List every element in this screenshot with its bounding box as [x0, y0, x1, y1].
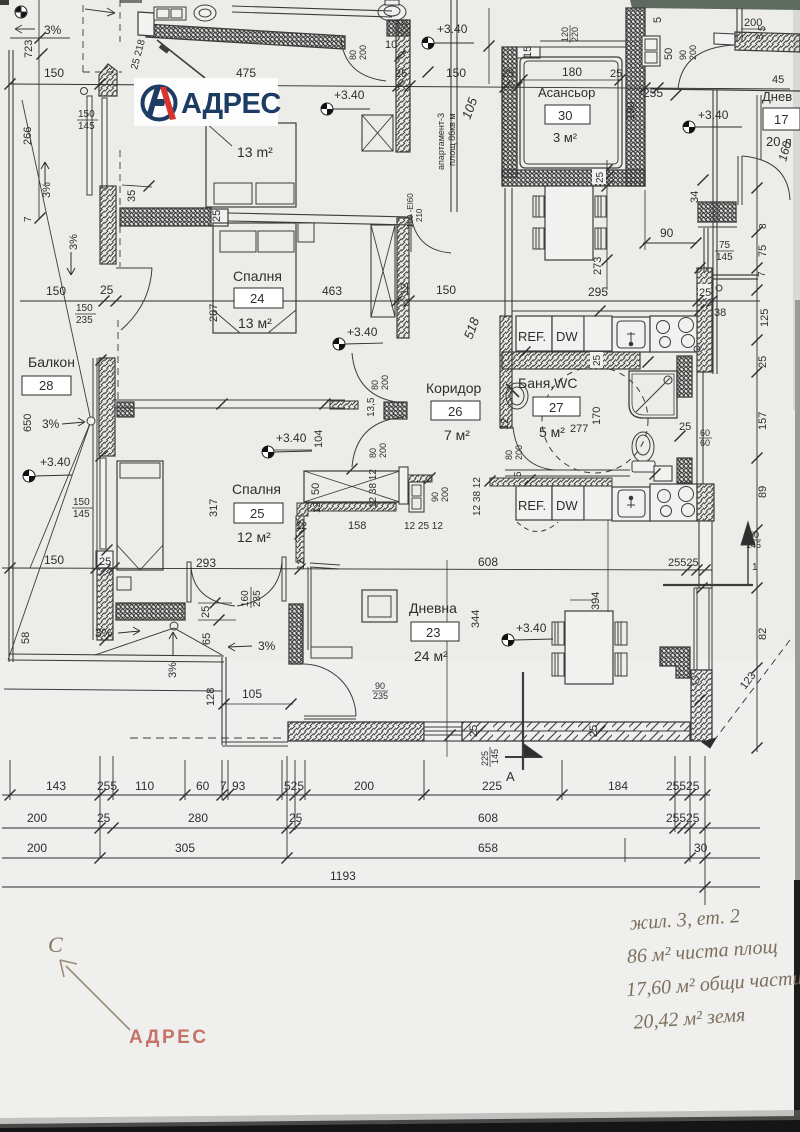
- svg-text:200: 200: [514, 445, 524, 460]
- label Дневна 23: [409, 600, 459, 664]
- wall left of kitchen/bath (hatch col): [500, 316, 512, 428]
- label Баня WC 27: [518, 375, 603, 440]
- balcony slope diagonals: [8, 100, 91, 660]
- svg-text:80: 80: [368, 448, 378, 458]
- dim elevator inner: [520, 79, 622, 81]
- svg-text:255: 255: [643, 86, 663, 100]
- svg-text:608: 608: [478, 811, 498, 825]
- svg-text:82: 82: [757, 628, 769, 640]
- handrail diagonal at top: [157, 40, 205, 78]
- svg-text:90: 90: [375, 681, 385, 691]
- wall dark bar bottom left: [116, 603, 185, 620]
- svg-text:145: 145: [716, 252, 733, 263]
- label 80/200 doorC: [368, 443, 388, 458]
- svg-text:+3.40: +3.40: [516, 621, 547, 635]
- svg-text:104: 104: [313, 430, 325, 448]
- label +3.40 right: [683, 108, 742, 133]
- label 3% balcony: [42, 417, 85, 431]
- scan corner mark top left: [0, 0, 9, 5]
- label 80/200 doorB: [370, 375, 390, 390]
- kitchen2 sink: [612, 487, 650, 521]
- wall bath bottom dark bits: [654, 466, 672, 481]
- wardrobe bedroomA: [362, 115, 393, 151]
- neighbour wall line: [653, 89, 800, 91]
- svg-text:3%: 3%: [95, 626, 113, 640]
- label апартамент-3: [436, 113, 457, 170]
- neighbour toilet top: [378, 0, 406, 21]
- svg-text:150: 150: [73, 497, 90, 508]
- svg-text:25525: 25525: [666, 779, 700, 793]
- svg-text:650: 650: [22, 414, 34, 432]
- kitchen1 sink: [612, 317, 650, 352]
- wall corridor/kitchen right boundary: [505, 188, 512, 318]
- svg-text:145: 145: [73, 509, 90, 520]
- handwriting bottom right: [621, 901, 800, 1034]
- svg-text:100 -EI60: 100 -EI60: [406, 193, 415, 228]
- svg-text:3%: 3%: [167, 662, 179, 678]
- radiator living sw: [311, 647, 352, 658]
- svg-text:Асансьор: Асансьор: [538, 85, 595, 100]
- svg-text:Баня,WC: Баня,WC: [518, 375, 578, 391]
- door bedroomA arc: [341, 38, 386, 81]
- svg-text:26: 26: [448, 404, 462, 419]
- svg-text:225: 225: [482, 779, 502, 793]
- wall hatch wedge right of jamb: [408, 475, 432, 482]
- label 160/235 door: [240, 587, 263, 608]
- svg-text:12 25 12: 12 25 12: [404, 521, 443, 532]
- label +3.40 living: [502, 621, 553, 646]
- wardrobe bedroomB tall: [371, 225, 395, 317]
- elevator bottom wall (cross-hatch): [502, 170, 645, 186]
- svg-text:30: 30: [694, 841, 708, 855]
- svg-text:12 м²: 12 м²: [237, 529, 271, 545]
- dim wall35 left: [122, 185, 152, 187]
- svg-text:25: 25: [289, 811, 303, 825]
- svg-text:13,5: 13,5: [366, 397, 377, 417]
- svg-text:200: 200: [440, 487, 450, 502]
- bath toilet: [632, 432, 655, 472]
- svg-text:Днев: Днев: [762, 89, 792, 104]
- wall bedroomA/B cross-hatched bar: [120, 208, 211, 226]
- neighbour sink oval above top wall: [194, 5, 216, 21]
- svg-text:25: 25: [588, 725, 600, 737]
- bath shower: [629, 371, 677, 418]
- svg-text:24 м²: 24 м²: [414, 648, 448, 664]
- svg-text:475: 475: [236, 66, 256, 80]
- svg-text:апартамент-3: апартамент-3: [436, 113, 446, 170]
- svg-text:305: 305: [175, 841, 195, 855]
- svg-text:255: 255: [97, 779, 117, 793]
- label +3.40 bedroomC: [262, 431, 312, 458]
- dim chain y301: [20, 300, 760, 302]
- label 17 box right: [763, 108, 800, 130]
- svg-text:150: 150: [744, 530, 759, 540]
- svg-text:Коридор: Коридор: [426, 380, 482, 396]
- label 90/200 opening: [430, 487, 450, 502]
- svg-text:90: 90: [660, 226, 674, 240]
- svg-text:АДРЕС: АДРЕС: [181, 88, 281, 120]
- kitchen2 stove: [650, 484, 697, 521]
- svg-text:293: 293: [196, 556, 216, 570]
- svg-text:3%: 3%: [258, 639, 276, 653]
- svg-text:317: 317: [208, 499, 220, 517]
- svg-text:80: 80: [370, 380, 380, 390]
- svg-text:12: 12: [399, 283, 411, 295]
- door jamb white rect: [399, 467, 408, 504]
- wall thin bedroomA/B right part: [228, 213, 412, 225]
- svg-text:12: 12: [312, 501, 323, 513]
- svg-text:280: 280: [188, 811, 208, 825]
- wall living east dark L block: [660, 647, 690, 678]
- closet bedroomC: [304, 471, 400, 502]
- kitchen1 top line: [512, 310, 700, 312]
- elevator door lines: [540, 41, 626, 47]
- svg-text:120: 120: [560, 27, 570, 42]
- svg-text:1: 1: [752, 562, 758, 573]
- svg-text:25: 25: [211, 210, 223, 222]
- dim row1 y795: [2, 794, 710, 796]
- svg-text:+3.40: +3.40: [437, 22, 468, 36]
- svg-text:80: 80: [504, 450, 514, 460]
- label 60/60: [699, 428, 712, 448]
- dining table living: [552, 611, 627, 684]
- bed bedroomA: [206, 123, 296, 207]
- svg-text:5: 5: [513, 471, 524, 477]
- svg-text:295: 295: [588, 285, 608, 299]
- wall entry corridor (double line): [451, 0, 457, 212]
- wall bath bottom thin: [505, 470, 630, 476]
- svg-text:REF.: REF.: [518, 498, 546, 513]
- svg-text:266: 266: [22, 127, 34, 145]
- wall right of bedroomA (hatched col): [396, 20, 410, 152]
- svg-text:Балкон: Балкон: [28, 354, 75, 370]
- dim row2 y828: [2, 827, 760, 829]
- bath sink: [506, 383, 528, 409]
- svg-text:8: 8: [758, 223, 769, 229]
- svg-text:287: 287: [208, 304, 220, 322]
- svg-text:3%: 3%: [42, 417, 60, 431]
- column right dark bar: [698, 202, 736, 222]
- svg-text:12: 12: [499, 418, 511, 430]
- svg-text:12 38 12: 12 38 12: [472, 477, 483, 516]
- svg-text:394: 394: [590, 592, 602, 610]
- svg-text:184: 184: [608, 779, 628, 793]
- kitchen2 REF: [516, 486, 552, 520]
- svg-text:75: 75: [757, 245, 769, 257]
- shelf lines top: [232, 6, 392, 17]
- label 80/200 bath door: [504, 445, 524, 460]
- svg-text:35: 35: [126, 190, 138, 202]
- nightstand bedroomB: [298, 223, 314, 242]
- svg-text:25525: 25525: [668, 557, 699, 569]
- svg-text:28: 28: [39, 378, 53, 393]
- label 75/145 right: [715, 240, 734, 263]
- label 150/145 balcony: [72, 497, 93, 520]
- dim verticals bottom strip: [10, 756, 705, 905]
- dim 104 marker line: [268, 449, 312, 451]
- svg-text:7 м²: 7 м²: [444, 427, 470, 443]
- svg-text:145: 145: [78, 121, 95, 132]
- wall hatch bar under closet: [308, 503, 396, 511]
- svg-text:25: 25: [395, 68, 407, 80]
- svg-text:A: A: [506, 769, 515, 784]
- svg-text:150: 150: [46, 284, 66, 298]
- wall living south hatch dense: [288, 722, 424, 741]
- svg-text:25: 25: [502, 68, 514, 80]
- svg-text:+3.40: +3.40: [334, 88, 365, 102]
- svg-text:3 м²: 3 м²: [553, 130, 578, 145]
- svg-text:143: 143: [46, 779, 66, 793]
- wall stub corridor (hatch): [330, 401, 358, 409]
- side table living: [362, 590, 397, 622]
- svg-text:150: 150: [78, 109, 95, 120]
- nightstand bedroomC: [117, 577, 131, 590]
- svg-text:50: 50: [663, 48, 675, 60]
- svg-text:25: 25: [250, 506, 264, 521]
- dim chain y568 left: [2, 568, 712, 570]
- label +3.40 corridor top: [422, 22, 474, 49]
- svg-text:90: 90: [430, 492, 440, 502]
- compass C arrow: [60, 960, 130, 1030]
- dim row3 y858: [2, 857, 760, 859]
- svg-text:30: 30: [558, 108, 572, 123]
- svg-text:38: 38: [714, 307, 726, 319]
- svg-text:658: 658: [478, 841, 498, 855]
- dim right chain x757: [756, 95, 758, 752]
- svg-text:25: 25: [595, 171, 606, 183]
- svg-text:235: 235: [252, 590, 263, 607]
- svg-text:DW: DW: [556, 329, 578, 344]
- kitchen1 DW: [552, 316, 584, 351]
- svg-text:27: 27: [549, 400, 563, 415]
- svg-text:525: 525: [284, 779, 304, 793]
- window living south: [424, 722, 462, 741]
- kitchen1 counter: [584, 316, 612, 351]
- svg-text:60: 60: [700, 428, 710, 438]
- dim diagonal 123 dashed: [716, 640, 790, 738]
- label 80/200 doorA: [348, 45, 368, 60]
- svg-text:210: 210: [415, 208, 424, 222]
- svg-text:25: 25: [100, 283, 114, 297]
- dim 25/65 bedroomC exit: [198, 603, 236, 620]
- door arc right balcony: [742, 156, 790, 200]
- terrace bottom double line: [9, 654, 224, 662]
- scan edge right gray strip: [793, 10, 800, 410]
- svg-text:200: 200: [688, 45, 698, 60]
- neighbour cabinet above top wall: [154, 7, 186, 20]
- svg-text:93: 93: [232, 779, 246, 793]
- label 120/220 elevator: [560, 25, 580, 43]
- wall hatch under kitchen1: [502, 352, 640, 369]
- label 3% up balcony: [41, 162, 53, 198]
- label 100-EI60/210: [406, 193, 424, 228]
- svg-text:1193: 1193: [330, 869, 356, 883]
- scan edge bottom black band: [0, 1116, 800, 1132]
- svg-text:REF.: REF.: [518, 329, 546, 344]
- svg-text:75: 75: [719, 240, 731, 251]
- svg-text:463: 463: [322, 284, 342, 298]
- door entry arc: [411, 214, 451, 253]
- dining table upper: [533, 186, 606, 260]
- wall balcony low col (hatch): [97, 568, 113, 640]
- door arc top right: [678, 45, 734, 89]
- svg-text:12 38 12: 12 38 12: [368, 469, 379, 508]
- kitchen1 stove: [650, 316, 700, 352]
- elevator top white block: [517, 47, 540, 58]
- wall right facade (hatch col): [697, 268, 712, 372]
- dim x607 vertical: [606, 160, 608, 290]
- dim x645 vertical: [644, 190, 646, 250]
- svg-text:13 m²: 13 m²: [237, 144, 273, 160]
- wall corridor/living thin hatch: [490, 478, 612, 486]
- wall stub corridor dark block: [384, 402, 407, 419]
- svg-text:344: 344: [470, 610, 482, 628]
- svg-text:235: 235: [76, 315, 93, 326]
- svg-text:170: 170: [591, 407, 603, 425]
- wall balcony mid col (hatch): [99, 358, 115, 456]
- label +3.40 balcony: [23, 455, 72, 482]
- terrace wall west double: [222, 657, 226, 745]
- wall hatch col under closet right: [296, 516, 304, 562]
- svg-text:АДРЕС: АДРЕС: [129, 1027, 209, 1048]
- svg-text:12: 12: [296, 558, 307, 570]
- door double living: [187, 557, 286, 606]
- windowsill right: [712, 275, 758, 279]
- svg-text:225: 225: [480, 751, 490, 766]
- wall chimney pentagon left: [99, 64, 117, 96]
- svg-text:145: 145: [746, 540, 761, 550]
- svg-text:608: 608: [478, 555, 498, 569]
- top right white block: [714, 33, 735, 45]
- svg-text:3%: 3%: [68, 234, 80, 250]
- door arc terrace: [304, 664, 356, 716]
- svg-text:90: 90: [678, 50, 688, 60]
- svg-text:105: 105: [242, 687, 262, 701]
- svg-text:145: 145: [490, 749, 500, 764]
- svg-text:180: 180: [562, 65, 582, 79]
- party wall right (double): [713, 90, 717, 374]
- svg-text:200: 200: [378, 443, 388, 458]
- label +3.40 bedroomA: [321, 88, 370, 115]
- neighbour stove squares: [642, 36, 660, 66]
- svg-text:25: 25: [468, 725, 480, 737]
- svg-text:24: 24: [250, 291, 264, 306]
- svg-text:150: 150: [436, 283, 456, 297]
- svg-text:3%: 3%: [41, 182, 53, 198]
- svg-text:80: 80: [348, 50, 358, 60]
- svg-text:200: 200: [27, 811, 47, 825]
- svg-text:220: 220: [570, 27, 580, 42]
- dim row4 y887: [2, 886, 760, 888]
- svg-text:Спалня: Спалня: [232, 481, 281, 497]
- svg-text:7: 7: [757, 271, 768, 277]
- svg-text:50: 50: [310, 483, 322, 495]
- wall column left (hatched): [100, 186, 116, 264]
- svg-text:190: 190: [625, 102, 637, 120]
- svg-text:25: 25: [699, 287, 711, 299]
- label 90/235: [372, 681, 388, 701]
- svg-text:25: 25: [592, 354, 603, 366]
- wall pier right below kitchen2: [699, 521, 712, 588]
- label 30 box: [545, 105, 590, 124]
- label 225/145 rot: [480, 747, 500, 767]
- svg-text:17: 17: [774, 112, 788, 127]
- bath dark column: [677, 356, 692, 397]
- wall living south sparse hatch: [462, 722, 690, 741]
- elevator left wall (cross-hatch): [502, 47, 517, 177]
- wall bedroomB/C thin double with ticks: [114, 400, 345, 408]
- balcony door frame right: [704, 228, 708, 272]
- label Спалня 24: [208, 268, 283, 331]
- dim row2 labels: [27, 811, 700, 825]
- dim row1 labels: [46, 779, 700, 793]
- door balconyB arc: [116, 268, 152, 330]
- label +3.40 bedroomB: [333, 325, 383, 350]
- svg-text:7: 7: [220, 779, 227, 793]
- dim ticks bedroom walls: [217, 399, 228, 410]
- dim ticks misc top: [395, 51, 406, 62]
- dim door90 line: [643, 242, 697, 244]
- label 150/145 right: [743, 530, 761, 550]
- svg-text:15: 15: [522, 46, 534, 58]
- svg-text:235: 235: [373, 691, 388, 701]
- kitchen1 REF: [516, 316, 552, 351]
- wall top exterior (cross-hatched, sloping): [146, 24, 345, 49]
- dim corridor x489: [488, 8, 490, 84]
- svg-text:5: 5: [652, 17, 664, 23]
- svg-text:200: 200: [27, 841, 47, 855]
- svg-text:25: 25: [679, 421, 691, 433]
- label Спалня 25: [208, 481, 283, 545]
- svg-text:34: 34: [689, 191, 701, 203]
- window balcony mid: [100, 458, 106, 549]
- svg-text:110: 110: [135, 779, 154, 793]
- dashed construction lines top left: [83, 0, 122, 72]
- svg-text:+3.40: +3.40: [698, 108, 729, 122]
- label Балкон 28: [22, 354, 75, 395]
- svg-text:7: 7: [23, 216, 34, 222]
- vent shaft 2 cells: [409, 482, 424, 512]
- wall right of bedroomB (hatched col): [397, 218, 409, 338]
- left dim col line: [38, 0, 40, 218]
- kitchen2 fridge arc dashed: [517, 522, 558, 532]
- svg-text:+3.40: +3.40: [276, 431, 307, 445]
- svg-text:89: 89: [757, 486, 769, 498]
- svg-text:273: 273: [592, 257, 604, 275]
- window living east: [694, 588, 712, 670]
- wall 25 box: [96, 551, 113, 568]
- terrace lower edge line: [4, 689, 222, 691]
- door bedroomB arc: [352, 353, 404, 403]
- section line A vertical: [522, 672, 524, 770]
- svg-text:12: 12: [296, 519, 307, 531]
- bed bedroomC: [117, 461, 163, 570]
- svg-text:25: 25: [200, 606, 212, 618]
- svg-text:25: 25: [97, 811, 111, 825]
- svg-text:площ 86кв м: площ 86кв м: [447, 113, 457, 166]
- wall white block right of bar: [211, 209, 228, 226]
- svg-text:128: 128: [205, 688, 217, 706]
- svg-text:25525: 25525: [666, 811, 700, 825]
- svg-text:150: 150: [446, 66, 466, 80]
- svg-text:200: 200: [380, 375, 390, 390]
- svg-text:C: C: [48, 932, 63, 957]
- section line 1 right: [663, 584, 753, 586]
- svg-text:150: 150: [76, 303, 93, 314]
- dim row3 labels: [27, 841, 708, 855]
- wall top white end block: [138, 12, 154, 36]
- label slope diagonals terrace: [95, 628, 222, 655]
